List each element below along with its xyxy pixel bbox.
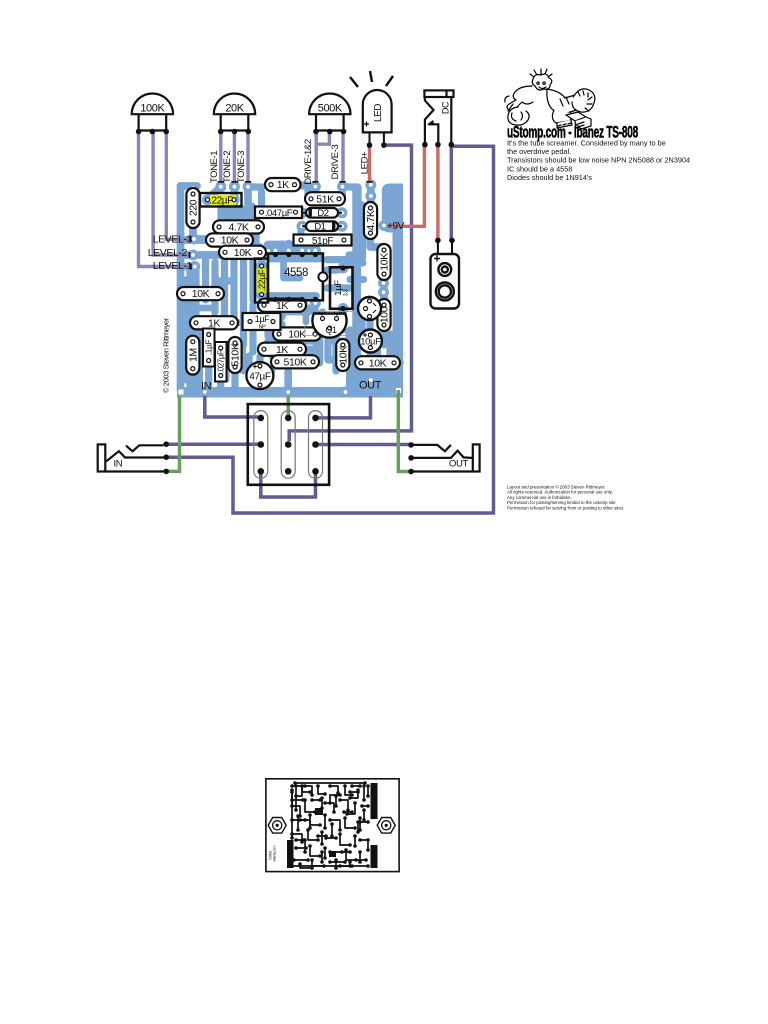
wire [202, 256, 209, 300]
wire [233, 133, 236, 183]
wire [382, 184, 402, 233]
wire [177, 186, 185, 390]
capacitor 1uF NP [243, 313, 281, 331]
pad [188, 188, 199, 199]
pad [379, 321, 390, 332]
transistor Q2 [358, 297, 381, 320]
wire [264, 308, 271, 336]
resistor 10K [355, 356, 400, 369]
wire [219, 133, 222, 183]
etch trace [290, 865, 368, 867]
wire [237, 208, 244, 232]
svg-text:10µF: 10µF [360, 337, 381, 348]
pad [338, 303, 349, 314]
etch trace [350, 791, 358, 793]
wire [284, 259, 301, 279]
wire [349, 259, 363, 266]
resistor 100 [377, 299, 390, 331]
wire [281, 312, 306, 322]
wire [341, 132, 344, 183]
etch pad [290, 804, 294, 808]
etch pad [308, 813, 312, 817]
etch trace [340, 800, 348, 810]
etch pad [353, 801, 357, 805]
wire [305, 308, 312, 312]
pad [290, 179, 301, 190]
etch trace [330, 795, 340, 803]
resistor 1K [258, 299, 306, 312]
pad [229, 181, 240, 192]
op-amp U1 4558 [268, 252, 328, 302]
pad [256, 247, 267, 258]
wire [350, 326, 363, 333]
etch fill [287, 840, 294, 868]
wire [339, 309, 346, 317]
wire [237, 348, 244, 370]
wire [436, 145, 439, 241]
etch trace [354, 836, 356, 846]
wire [374, 334, 381, 356]
wire [346, 363, 403, 387]
wire [368, 145, 371, 182]
etch pad [348, 864, 352, 868]
pad [379, 270, 390, 281]
etch pad [323, 846, 327, 850]
etch trace [296, 839, 304, 841]
jack IN [98, 444, 164, 471]
wire [177, 387, 403, 398]
svg-text:© 2003 Steven Rittmeyer: © 2003 Steven Rittmeyer [162, 317, 171, 393]
pad [271, 356, 282, 367]
wire [343, 187, 359, 205]
pad [340, 387, 351, 398]
etch trace [292, 799, 303, 801]
pad [309, 356, 320, 367]
potentiometer 500K [309, 93, 350, 130]
svg-text:3.3: 3.3 [344, 289, 350, 296]
wire [272, 299, 279, 310]
pad [364, 311, 375, 322]
pad [229, 194, 240, 205]
wire [189, 330, 196, 335]
etch pad [323, 792, 327, 796]
etch pad [303, 784, 307, 788]
etch pad [294, 838, 298, 842]
etch pad [303, 798, 307, 802]
wire [189, 375, 197, 389]
etch trace [318, 786, 325, 794]
svg-text:4558: 4558 [284, 267, 308, 279]
wire [231, 200, 238, 246]
etch fill [315, 808, 323, 815]
capacitor .027uF [215, 342, 227, 382]
etch pad [364, 858, 368, 862]
pad [297, 221, 308, 232]
svg-text:DRIVE-1&2: DRIVE-1&2 [303, 139, 314, 185]
etch pad [330, 834, 334, 838]
etch pad [358, 784, 362, 788]
svg-text:TONE-1: TONE-1 [209, 151, 220, 183]
etch pad [290, 832, 294, 836]
etch pad [294, 794, 298, 798]
etch trace [302, 786, 310, 792]
svg-text:Q1: Q1 [325, 325, 337, 335]
pad [177, 288, 188, 299]
wire [139, 133, 192, 267]
svg-text:47µF: 47µF [249, 372, 271, 383]
wire [312, 299, 319, 313]
capacitor 10uF [359, 330, 382, 353]
etch trace [331, 824, 333, 836]
wire [270, 312, 277, 322]
pad [243, 235, 254, 246]
svg-text:10K: 10K [234, 247, 252, 259]
pad [268, 316, 279, 327]
wire [249, 305, 256, 352]
etch pad [332, 810, 336, 814]
svg-text:510K: 510K [230, 343, 242, 366]
pad [296, 235, 307, 246]
wire [181, 290, 184, 298]
resistor 1M [186, 336, 199, 375]
wire [332, 336, 339, 371]
mounting hole [377, 818, 395, 834]
wire [350, 276, 364, 283]
wire [302, 186, 315, 199]
etch trace [308, 830, 318, 840]
pad [213, 221, 224, 232]
svg-text:1K: 1K [277, 179, 289, 191]
wire [248, 187, 260, 252]
etch trace [362, 805, 368, 807]
wire [302, 213, 342, 226]
etch pad [353, 844, 357, 848]
svg-text:OUT: OUT [359, 380, 382, 392]
capacitor .1uF [203, 329, 215, 367]
svg-text:IN: IN [114, 459, 123, 470]
pad [365, 342, 376, 353]
pad [338, 263, 349, 274]
wire [258, 192, 265, 206]
etch trace [324, 815, 326, 828]
wire [344, 236, 357, 244]
wire [262, 295, 263, 306]
pad [245, 316, 256, 327]
wire [190, 319, 196, 326]
wire [241, 348, 246, 372]
etch pad [358, 850, 362, 854]
etch pad [350, 864, 354, 868]
etch pad [308, 826, 312, 830]
wire [217, 376, 224, 390]
wire [339, 316, 346, 330]
wire [291, 244, 298, 254]
wire [217, 206, 224, 240]
etch pad [320, 860, 324, 864]
etch pad [358, 838, 362, 842]
pad [219, 247, 230, 258]
pad [297, 298, 308, 309]
etch fill [329, 851, 336, 857]
etch trace [356, 859, 366, 861]
pad [360, 303, 371, 314]
wire [285, 332, 292, 356]
wire [218, 281, 231, 294]
etch pad [300, 840, 304, 844]
etch trace [295, 782, 365, 784]
etch pad [366, 794, 370, 798]
svg-text:10K: 10K [369, 357, 387, 369]
wire [230, 244, 237, 318]
mounting hole [268, 818, 286, 834]
etch trace [292, 834, 302, 842]
pad [297, 245, 308, 256]
wire [246, 133, 249, 183]
etch pad [320, 850, 324, 854]
resistor 10K [377, 244, 390, 280]
etch pad [296, 814, 300, 818]
etch pad [310, 866, 314, 870]
wire [366, 356, 373, 368]
etch pad [294, 784, 298, 788]
wire [316, 443, 411, 447]
etch pad [358, 828, 362, 832]
pad [273, 329, 284, 340]
wire [353, 363, 361, 388]
etch trace [363, 810, 365, 820]
wire [358, 310, 365, 336]
wire [394, 359, 400, 367]
wire [393, 184, 404, 387]
etch pad [353, 826, 357, 830]
pad [202, 194, 213, 205]
capacitor 51pF [294, 235, 352, 247]
wire [168, 146, 494, 513]
wire [186, 268, 193, 390]
etch pad [303, 838, 307, 842]
svg-text:20K: 20K [225, 103, 244, 115]
etch pad [362, 798, 366, 802]
etch pad [354, 858, 358, 862]
pad [296, 300, 307, 311]
svg-text:51K: 51K [316, 193, 334, 205]
wire [308, 331, 321, 338]
etch pad [323, 813, 327, 817]
etch pad [366, 784, 370, 788]
etch pad [350, 810, 354, 814]
etch pad [324, 836, 328, 840]
etch trace [345, 818, 355, 828]
wire [306, 340, 316, 349]
etch pad [360, 804, 364, 808]
etch pad [298, 862, 302, 866]
pad [206, 235, 217, 246]
pad [258, 344, 269, 355]
wire [296, 185, 308, 197]
wire [221, 256, 228, 318]
wire [278, 311, 285, 317]
etch pad [362, 818, 366, 822]
pad [230, 337, 241, 348]
pad [256, 207, 267, 218]
etch trace [324, 848, 326, 858]
etch pad [328, 784, 332, 788]
etch trace [335, 796, 337, 806]
etch pad [345, 812, 349, 816]
resistor 10K [336, 339, 349, 371]
etch pad [298, 818, 302, 822]
svg-text:D2: D2 [317, 208, 328, 219]
etch pad [338, 864, 342, 868]
wire [370, 239, 384, 247]
pad [254, 380, 265, 391]
etch pad [303, 818, 307, 822]
etch trace [291, 792, 293, 806]
svg-text:OUT: OUT [449, 458, 468, 469]
footswitch 3PDT [248, 404, 329, 485]
etch pad [292, 858, 296, 862]
resistor 10K [177, 287, 224, 300]
etch pad [323, 801, 327, 805]
etch pad [358, 860, 362, 864]
etch pad [366, 838, 370, 842]
pad [283, 298, 294, 309]
resistor 1K [265, 178, 301, 191]
etch trace [347, 803, 355, 814]
etch trace [300, 864, 312, 868]
pad [365, 375, 376, 386]
wire [249, 206, 256, 250]
DC jack [424, 90, 453, 144]
pad [310, 181, 321, 192]
wire [316, 334, 323, 363]
etch trace [330, 820, 340, 830]
pad [335, 193, 346, 204]
svg-text:100K: 100K [140, 103, 165, 115]
wire [240, 232, 247, 345]
etch pad [338, 798, 342, 802]
wire [289, 145, 411, 441]
svg-text:220: 220 [188, 199, 200, 216]
pad [215, 343, 226, 354]
etch pad [338, 832, 342, 836]
wire [380, 331, 387, 345]
wire [367, 185, 375, 204]
wire [312, 240, 319, 254]
pad [339, 235, 350, 246]
svg-text:.047µF: .047µF [265, 208, 293, 219]
etch trace [312, 860, 324, 866]
etch pad [363, 781, 367, 785]
wire [199, 332, 203, 386]
etch pad [300, 784, 304, 788]
wire [181, 263, 197, 271]
etch trace [349, 862, 351, 866]
pad [270, 298, 281, 309]
wire [285, 299, 292, 306]
pad [317, 313, 328, 324]
etch fill [371, 783, 378, 819]
wire [315, 132, 318, 183]
etch pad [328, 860, 332, 864]
etch trace [297, 816, 299, 830]
pad [337, 221, 348, 232]
etch pad [348, 860, 352, 864]
etch trace [346, 850, 356, 860]
wire [398, 390, 410, 472]
svg-text:DRIVE-3: DRIVE-3 [330, 145, 341, 180]
etch pad [310, 798, 314, 802]
etch pad [344, 848, 348, 852]
wire [268, 337, 312, 344]
svg-text:IN: IN [201, 381, 212, 393]
pad [188, 183, 199, 194]
wire [211, 262, 218, 312]
etch pad [306, 828, 310, 832]
wire [299, 247, 306, 254]
wire [193, 188, 210, 239]
svg-text:.1µF: .1µF [204, 340, 214, 356]
svg-text:4.7K: 4.7K [365, 210, 377, 230]
wire [327, 284, 352, 291]
etch pad [348, 790, 352, 794]
pad [283, 387, 294, 398]
etch pad [308, 844, 312, 848]
pad [324, 324, 335, 335]
etch trace [330, 786, 338, 793]
svg-text:TONE-3: TONE-3 [236, 151, 247, 183]
etch pad [290, 818, 294, 822]
etch pad [334, 866, 338, 870]
etch trace [310, 815, 320, 825]
wire [208, 187, 221, 200]
wire ticks [190, 236, 192, 270]
pad [270, 245, 281, 256]
etch pad [323, 856, 327, 860]
svg-text:Diodes should be 1N914's: Diodes should be 1N914's [507, 173, 592, 182]
etch trace [367, 786, 369, 796]
wire [318, 396, 371, 418]
wire [212, 308, 217, 316]
wire [366, 320, 373, 335]
etch trace [296, 847, 306, 849]
etch trace [305, 786, 312, 795]
wire [278, 244, 285, 254]
svg-text:10K: 10K [379, 253, 391, 271]
etch pad [362, 808, 366, 812]
etch pad [320, 830, 324, 834]
etch pad [328, 850, 332, 854]
svg-text:LEVEL-1: LEVEL-1 [153, 260, 193, 272]
etch pad [356, 788, 360, 792]
etch pad [366, 864, 370, 868]
wire [186, 305, 214, 312]
wire [168, 442, 258, 446]
svg-text:+9V: +9V [387, 221, 405, 232]
etch trace [330, 861, 345, 863]
pad [337, 207, 348, 218]
pad [188, 250, 199, 261]
pad [254, 361, 265, 372]
etch pad [306, 858, 310, 862]
wire [231, 187, 239, 200]
wire [231, 373, 238, 389]
pad [378, 287, 389, 298]
pad [365, 202, 376, 213]
pad [364, 296, 375, 307]
etch trace [350, 790, 358, 798]
svg-text:NP: NP [259, 325, 267, 331]
